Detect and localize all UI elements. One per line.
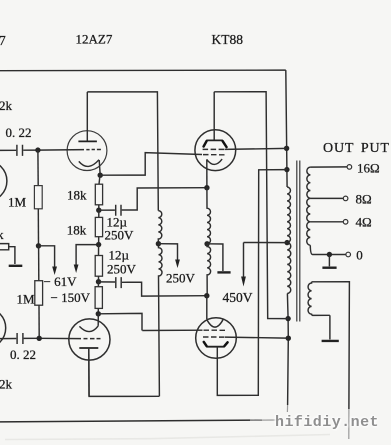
node chain tap 1 [96, 208, 101, 213]
svg-text:8Ω: 8Ω [356, 191, 372, 206]
U1b plate lead [88, 348, 90, 396]
node driver winding center tap [156, 241, 161, 246]
secondary winding section 4-0 [307, 222, 311, 245]
U2 g2 dashes and wire to B+ [203, 148, 287, 149]
secondary tap 0 [310, 245, 346, 254]
node cathode winding center tap [204, 241, 209, 246]
U3 plate bar [206, 346, 224, 348]
svg-text:18k: 18k [67, 222, 87, 237]
wire U1a cathode to upper KT88 grid [100, 153, 202, 176]
U3 g1 wire and dashes [142, 329, 225, 331]
node lower grid junction [37, 336, 42, 341]
secondary tap 8ohm [310, 197, 343, 199]
node U1a cathode [98, 173, 103, 178]
wire 12AZ7 upper plate to driver winding [87, 92, 158, 211]
node grid junction upper [35, 147, 40, 152]
capacitor 0.22 lower plates [17, 333, 23, 344]
svg-text:450V: 450V [223, 290, 253, 305]
capacitor 0.22 lower wire [0, 337, 39, 339]
driver winding upper half [158, 211, 162, 244]
node lower cathode rail [204, 293, 209, 298]
secondary winding section 16-8 [307, 167, 311, 198]
node primary center tap 450V [284, 240, 289, 245]
capacitor 12u lower plates [116, 277, 121, 288]
node lower cathode junction [96, 311, 101, 316]
capacitor 0.22 upper: left wire [0, 149, 84, 152]
svg-text:4Ω: 4Ω [356, 215, 372, 230]
U1b plate bar [79, 347, 98, 349]
svg-text:2k: 2k [0, 98, 13, 113]
U3 plate lead loop to screen rail [217, 170, 287, 396]
watermark hifidiy.net [275, 414, 379, 431]
svg-text:250V: 250V [166, 270, 196, 285]
faint photo edge band [5, 435, 330, 440]
feedback winding [308, 282, 330, 316]
svg-text:0. 22: 0. 22 [6, 125, 32, 140]
U2 cathode arc [207, 159, 222, 164]
U1a grid dashes [86, 149, 101, 151]
secondary tap 4ohm [310, 221, 343, 223]
svg-text:7: 7 [0, 33, 6, 48]
svg-text:k: k [0, 227, 4, 242]
U1b cathode lead [97, 314, 99, 326]
cathode winding lower half [207, 244, 211, 296]
ground 1k [9, 265, 23, 267]
arrow 450V at primary tap [244, 243, 288, 278]
U2 plate lead and jog to B+ [214, 92, 288, 319]
wire top B+ rail [0, 69, 286, 72]
node upper KT88 plate [285, 316, 290, 321]
svg-text:KT88: KT88 [212, 32, 244, 47]
U2 cathode lead [206, 159, 208, 187]
svg-text:16Ω: 16Ω [357, 160, 380, 175]
resistor 1k horizontal (cropped) [0, 244, 9, 250]
svg-text:0: 0 [356, 248, 363, 263]
tube 12AX7 partial lower (cropped) [0, 308, 6, 349]
svg-text:− 61V: − 61V [44, 274, 78, 289]
U2 g1 dashes [203, 154, 225, 156]
resistor 18k no.1 [99, 175, 100, 184]
feedback winding top wire [312, 282, 350, 409]
svg-text:18k: 18k [67, 188, 87, 203]
U1a cathode lead [99, 160, 100, 175]
node chain tap 2 [96, 242, 101, 247]
arrow 250V at driver winding tap [158, 244, 177, 261]
tube KT88 upper U2 [195, 130, 236, 171]
wire bottom rail [0, 420, 262, 422]
svg-text:250V: 250V [107, 262, 137, 277]
ground secondary [328, 255, 330, 267]
arrow -150V measurement [76, 245, 99, 266]
node screen rail to lower loop [284, 167, 289, 172]
wire driver winding bottom loop to lower 12AZ7 plate [89, 348, 160, 396]
resistor 18k no.2 [98, 210, 100, 217]
U3 g2 dashes and wire to B+ [203, 337, 286, 338]
arrow -61V measurement [39, 246, 55, 268]
capacitor 12u lower wire [99, 282, 207, 296]
transformer primary winding lower half [287, 243, 291, 294]
node lower KT88 g2 [286, 336, 291, 341]
node chain tap 3 [96, 279, 101, 284]
wire to lower KT88 cathode [206, 296, 208, 320]
ground feedback winding [329, 315, 331, 339]
node g2 upper KT88 on B+ [284, 146, 289, 151]
secondary tap 16ohm [310, 166, 347, 168]
U1b grid wire and dashes [39, 337, 100, 339]
capacitor 12u upper plates [116, 205, 121, 216]
tube 12AX7 partial upper (cropped) [0, 161, 7, 202]
ground cathode winding tap [207, 244, 223, 271]
capacitor 0.22 upper plates [17, 145, 23, 156]
svg-text:1M: 1M [8, 195, 27, 210]
resistor chain no.3 [98, 245, 100, 256]
U2 plate bar [206, 139, 223, 141]
node -61V tap [36, 243, 41, 248]
transformer primary winding upper half [287, 187, 290, 243]
resistor 1M lower [38, 246, 40, 281]
U1a plate lead [86, 92, 88, 141]
wire 1k to ground [9, 247, 15, 264]
tube 12AZ7 lower U1b [69, 319, 110, 360]
U3 cathode arc [207, 319, 224, 327]
resistor chain no.4 [97, 282, 99, 287]
tube KT88 lower U3 [196, 318, 237, 359]
transformer core lines [297, 161, 300, 322]
svg-text:250V: 250V [105, 228, 135, 243]
secondary winding section 8-4 [307, 198, 311, 221]
resistor 1M upper [37, 150, 39, 186]
capacitor 12u upper wire [99, 188, 207, 211]
U1a cathode arc [79, 160, 99, 167]
svg-text:− 150V: − 150V [51, 290, 91, 305]
cathode winding upper half [207, 188, 211, 244]
U1b cathode arc [79, 326, 98, 332]
wire lower 12AZ7 cathode to U3 grid [98, 313, 142, 330]
U2 beam plate blobs [204, 141, 227, 147]
driver winding lower half [158, 244, 162, 397]
svg-text:0. 22: 0. 22 [10, 347, 36, 362]
U1a plate bar [78, 140, 97, 142]
U3 beam plate blobs [204, 342, 228, 346]
tube 12AZ7 upper triode U1a [67, 131, 107, 171]
svg-text:12µ: 12µ [109, 248, 130, 263]
node secondary ground tap [327, 252, 332, 257]
svg-text:12AZ7: 12AZ7 [76, 32, 113, 47]
wire B+ vertical main [286, 70, 289, 405]
node U2 cathode [204, 185, 209, 190]
svg-text:OUT PUT: OUT PUT [323, 141, 390, 156]
svg-text:1M: 1M [17, 291, 36, 306]
svg-text:2k: 2k [0, 376, 13, 391]
